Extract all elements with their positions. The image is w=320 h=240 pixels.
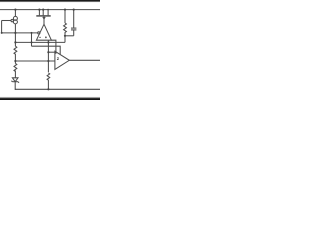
junction dots [1, 9, 75, 91]
wire output [69, 59, 100, 61]
wire connector [31, 33, 33, 46]
node dots rail/Q1 legs [38, 9, 40, 11]
resistor R4 [47, 73, 50, 89]
wire W2 long [15, 41, 65, 43]
wire V- bottom rail [15, 88, 100, 90]
wire R3 node to capacitor [65, 35, 74, 37]
node dot R4/bottom rail [47, 88, 49, 90]
resistor R1 [14, 46, 17, 58]
wire V1 to elbow [48, 51, 56, 53]
capacitor C1 bottom lead [73, 30, 75, 36]
node dot connector/W1 [31, 32, 33, 34]
wire left branch upper [14, 10, 16, 17]
current source I1 [13, 16, 17, 20]
transistor Q1 base bar [36, 15, 50, 17]
resistor R3 [64, 23, 67, 36]
node dot rail/R3 [64, 9, 66, 11]
node dot branch/W1 [14, 32, 16, 34]
page rule top [0, 0, 100, 3]
capacitor C1 top lead [73, 10, 75, 29]
node dot V1 input stub [47, 51, 49, 53]
page rule bottom [0, 96, 100, 100]
wire zener to bottom rail [14, 82, 17, 90]
node dot rail/left branch [14, 9, 16, 11]
op-amp U2 triangle [55, 51, 69, 69]
wire left branch middle [14, 24, 16, 46]
wire divider node [14, 58, 16, 63]
wire pin to left [2, 20, 11, 22]
node dot V1/W4 [47, 60, 49, 62]
resistor R3 leg from rail [64, 10, 66, 23]
node dot branch/W2 [14, 41, 16, 43]
terminal pin circle [11, 19, 13, 21]
vertical V1 from A1 base down [47, 40, 49, 72]
wire V+ top rail [0, 9, 100, 11]
zener diode D1 [12, 78, 18, 82]
Q1 emitter with arrow [43, 17, 45, 25]
Q1 collector legs [38, 10, 40, 16]
amplifier A1 triangle (points up) [36, 24, 51, 40]
wire W4 divider to op-amp [15, 60, 55, 62]
node dot connector/W2 [31, 41, 33, 43]
wire node A horizontal [2, 32, 38, 34]
A1 plus mark [45, 36, 47, 38]
capacitor C1 plates [71, 27, 76, 29]
A1 base extension to elbow [51, 40, 56, 54]
resistor R2 [14, 63, 17, 71]
node dot V1/W2 [47, 41, 49, 43]
inverting input bubble [38, 32, 40, 34]
wire left edge down [1, 21, 3, 33]
node dot left corner [1, 32, 3, 34]
node dot divider [14, 60, 16, 62]
node dot R3/W2 corner [64, 35, 66, 37]
wire W3 [32, 46, 61, 54]
wire R3 bottom to corner [64, 36, 66, 43]
wire to zener [14, 70, 16, 77]
node dot rail/C1 [73, 9, 75, 11]
A1 minus mark [39, 36, 41, 38]
